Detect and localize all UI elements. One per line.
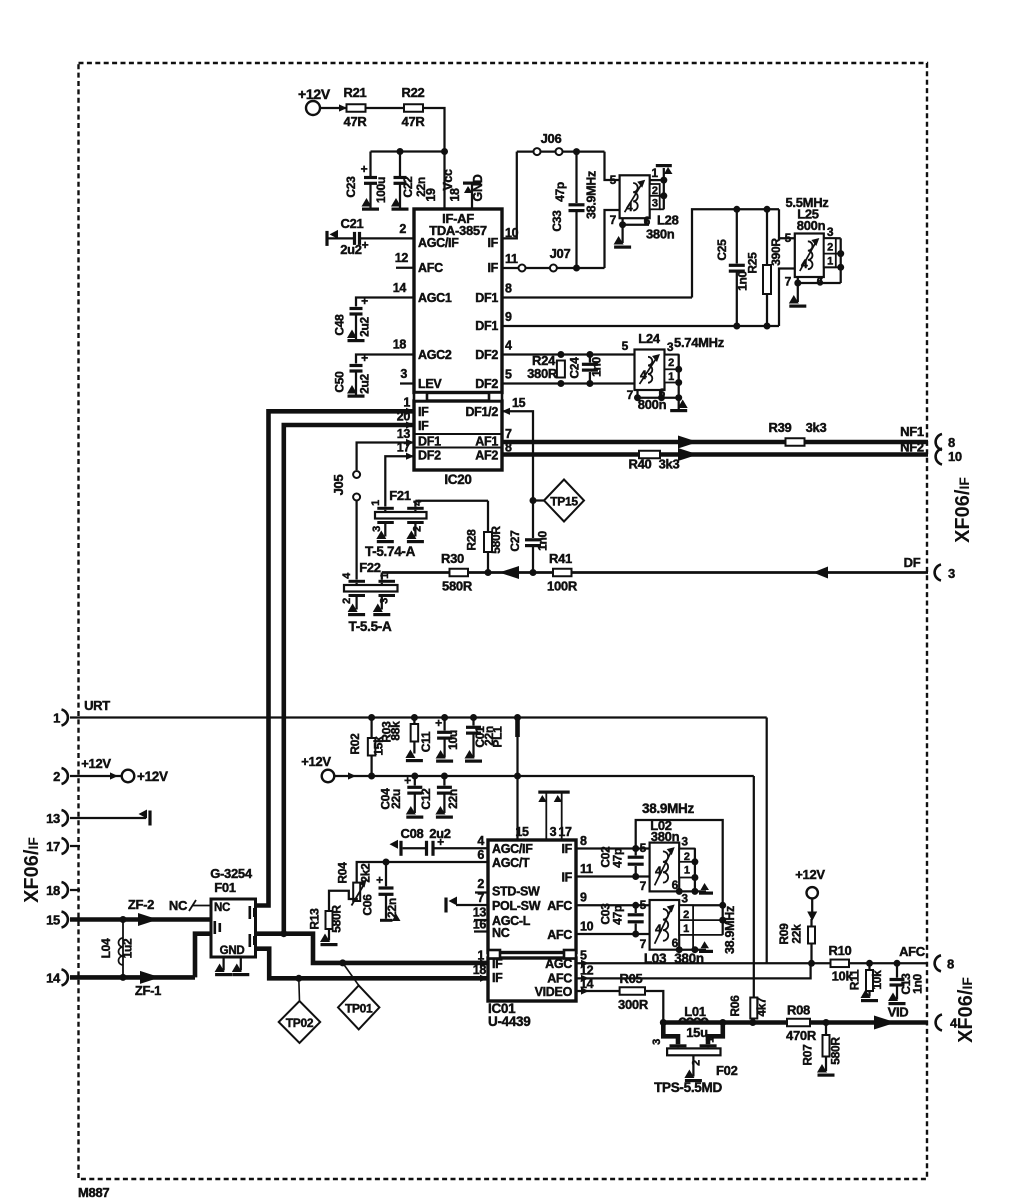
svg-text:DF2: DF2	[475, 348, 498, 362]
svg-text:C08: C08	[401, 826, 424, 841]
svg-text:580R: 580R	[442, 579, 473, 594]
svg-text:3: 3	[681, 891, 688, 905]
svg-text:T-5.74-A: T-5.74-A	[365, 544, 416, 559]
capacitor C08 2u2	[390, 826, 489, 856]
svg-text:DF1: DF1	[475, 291, 498, 305]
svg-text:C06: C06	[361, 894, 375, 916]
wire AFC pin10 row	[576, 931, 650, 938]
resistor R11 10k	[848, 963, 885, 1002]
label IC01 / U-4439	[488, 1001, 530, 1029]
svg-text:5: 5	[610, 173, 617, 187]
wire DF2 pin4 row	[502, 353, 635, 355]
wire +12V rail	[352, 775, 754, 777]
label G-3254 / F01	[210, 866, 253, 895]
label XF06/IF (left)	[21, 837, 43, 903]
svg-text:4: 4	[801, 257, 808, 271]
junction	[586, 351, 593, 387]
svg-text:IF: IF	[492, 971, 503, 985]
svg-text:4: 4	[477, 834, 484, 848]
wire VIDEO out	[576, 990, 620, 992]
connector XF06 pin 3 (DF)	[935, 565, 955, 582]
svg-text:C48: C48	[333, 314, 347, 336]
pin 10 label	[505, 226, 519, 240]
svg-text:AF2: AF2	[475, 449, 498, 463]
ground (pin 17 top)	[554, 791, 570, 841]
label VID	[888, 1005, 909, 1020]
svg-text:F01: F01	[214, 880, 236, 895]
ceramic filter F21 T-5.74-A	[365, 488, 427, 559]
svg-text:DF2: DF2	[475, 377, 498, 391]
+12V feed (left)	[70, 756, 168, 784]
svg-text:1n0: 1n0	[536, 530, 550, 550]
label 38.9MHz (L02)	[642, 801, 694, 816]
capacitor C33 47p	[550, 152, 585, 268]
svg-text:GND: GND	[471, 174, 485, 201]
wire R04 to R13	[329, 891, 357, 911]
wire DF line	[382, 571, 928, 574]
wire to L28 pin5	[605, 152, 620, 180]
svg-text:3: 3	[371, 526, 383, 532]
svg-text:2: 2	[652, 185, 658, 197]
svg-text:1: 1	[668, 371, 674, 383]
svg-text:F02: F02	[716, 1063, 738, 1078]
svg-text:7: 7	[627, 388, 634, 402]
wire AFC pin12 row	[576, 963, 811, 978]
wire F01 out2 to IC20 pin20	[256, 425, 415, 934]
resistor R09 22k	[777, 919, 815, 963]
pin 11 label	[505, 252, 518, 266]
pin 4 label	[477, 834, 484, 848]
junction	[557, 351, 564, 387]
label AFC	[899, 944, 926, 959]
pin 15 label	[512, 396, 526, 410]
svg-text:13: 13	[397, 427, 411, 441]
svg-text:15: 15	[46, 913, 60, 928]
svg-text:ZF-2: ZF-2	[128, 897, 154, 912]
svg-text:R21: R21	[344, 85, 367, 100]
connector XF06 pin 4 (VID)	[936, 1015, 958, 1031]
svg-text:2u2: 2u2	[358, 373, 372, 393]
resistor R39 3k3	[769, 420, 827, 446]
svg-text:3k3: 3k3	[806, 420, 827, 435]
svg-text:PL1: PL1	[491, 726, 505, 748]
svg-text:TP02: TP02	[286, 1016, 314, 1030]
svg-text:47p: 47p	[553, 182, 567, 202]
svg-text:1n0: 1n0	[590, 356, 604, 376]
wire IF pin11 row	[576, 873, 650, 880]
svg-text:2: 2	[827, 242, 833, 254]
pin 5 label	[505, 368, 512, 382]
svg-text:+12V: +12V	[81, 756, 111, 771]
resistor R05 300R	[618, 971, 649, 1012]
svg-text:R39: R39	[769, 420, 792, 435]
wire IF pin8 row	[576, 845, 650, 852]
svg-text:19: 19	[424, 188, 438, 202]
wire VID line	[723, 1020, 928, 1025]
wire rail to R06	[753, 776, 755, 998]
pin 7 label	[505, 427, 512, 441]
svg-text:XF06/IF: XF06/IF	[952, 477, 974, 543]
svg-text:47R: 47R	[344, 114, 368, 129]
svg-text:1: 1	[651, 166, 658, 180]
svg-text:3k3: 3k3	[659, 457, 680, 472]
svg-text:R04: R04	[336, 862, 350, 884]
svg-text:10: 10	[580, 920, 594, 934]
svg-text:L28: L28	[657, 213, 679, 228]
svg-text:IF: IF	[561, 871, 572, 885]
svg-text:DF1: DF1	[475, 319, 498, 333]
pin 17 label (top)	[558, 825, 572, 839]
wire URT line	[70, 716, 767, 718]
IC01 lower body	[488, 950, 576, 1001]
svg-text:8: 8	[505, 282, 512, 296]
svg-text:18: 18	[448, 188, 462, 202]
wire R05 to VID line	[645, 991, 663, 1023]
jumper J07	[519, 246, 571, 272]
svg-text:F22: F22	[359, 560, 381, 575]
svg-text:C24: C24	[568, 357, 582, 379]
svg-text:1: 1	[827, 256, 833, 268]
pin 16 stub	[473, 918, 488, 932]
bandpass filter L28 380n	[610, 173, 679, 242]
svg-text:POL-SW: POL-SW	[492, 899, 541, 913]
connector XF06 pin 13	[46, 810, 68, 826]
label XF06/IF (right upper)	[952, 477, 974, 543]
svg-text:ZF-1: ZF-1	[135, 983, 161, 998]
pin 11 label	[580, 862, 593, 876]
SAW filter F01 G-3254	[211, 899, 256, 957]
svg-text:6: 6	[477, 848, 484, 862]
arrow (NF1)	[678, 436, 698, 449]
wire ZF-1 to F01	[195, 934, 211, 978]
svg-text:47p: 47p	[611, 905, 625, 925]
svg-text:L01: L01	[684, 1004, 706, 1019]
capacitor C25 1n0	[715, 209, 750, 326]
svg-text:DF1: DF1	[418, 435, 441, 449]
svg-text:2: 2	[477, 877, 484, 891]
svg-text:8: 8	[580, 834, 587, 848]
pin 14 label	[580, 977, 594, 991]
svg-text:22n: 22n	[385, 898, 399, 918]
svg-text:2k2: 2k2	[359, 863, 373, 883]
arrow (NF2)	[678, 448, 698, 461]
svg-text:AGC/IF: AGC/IF	[492, 842, 533, 856]
svg-text:NC: NC	[214, 902, 230, 914]
ground (pin 3 top)	[538, 791, 554, 841]
L25 bottom rail and ground	[789, 277, 841, 308]
svg-text:+12V: +12V	[298, 86, 331, 102]
svg-text:DF2: DF2	[418, 449, 441, 463]
svg-text:38.9MHz: 38.9MHz	[642, 801, 694, 816]
IC U-IC01 U-4439 main body	[488, 840, 576, 953]
svg-text:R22: R22	[402, 85, 425, 100]
svg-text:IF: IF	[487, 261, 498, 275]
pin 13 stub	[473, 906, 488, 921]
connector XF06 pin 8 (AFC)	[935, 955, 954, 971]
pin 13 label	[397, 427, 411, 441]
svg-text:2u2: 2u2	[358, 316, 372, 336]
junction	[808, 960, 815, 967]
pin 4 label	[505, 339, 512, 353]
pin 7 label	[477, 891, 484, 905]
junction	[295, 975, 302, 982]
pin 14 label	[393, 281, 407, 295]
pin 3 label (top)	[550, 825, 557, 839]
svg-text:LEV: LEV	[418, 377, 442, 391]
pin 1 label	[403, 396, 410, 410]
L03 output taps	[679, 891, 726, 935]
L02 bottom rail and ground	[676, 883, 713, 895]
test point TP01	[338, 963, 379, 1030]
resistor R07 580R	[801, 1023, 843, 1077]
svg-text:C23: C23	[344, 176, 358, 198]
svg-text:IC20: IC20	[444, 472, 471, 487]
jumper J05	[331, 471, 360, 501]
svg-text:2: 2	[399, 222, 406, 236]
IC20 lower body (IF/DF switch)	[414, 393, 502, 471]
svg-text:3: 3	[681, 835, 688, 849]
svg-text:3: 3	[652, 198, 658, 210]
+12V supply terminal (top)	[298, 86, 347, 115]
pin 8 label	[505, 282, 512, 296]
svg-text:1: 1	[684, 865, 690, 877]
capacitor C23 100u	[344, 152, 388, 211]
arrow (ZF-2)	[138, 913, 158, 926]
label NF1	[900, 424, 924, 439]
svg-text:L24: L24	[638, 331, 661, 346]
svg-text:4: 4	[626, 200, 633, 214]
pin 9 label	[580, 891, 587, 905]
pin 3 stub	[400, 367, 414, 384]
junction	[339, 959, 346, 966]
resistor R21 47R	[344, 85, 368, 129]
svg-text:J05: J05	[331, 475, 346, 496]
svg-text:AFC: AFC	[547, 928, 572, 942]
bandpass filter L24 800n	[622, 331, 725, 402]
svg-text:IF: IF	[487, 236, 498, 250]
capacitor C13 1n0	[888, 963, 925, 1005]
connector XF06 pin 15 (ZF-2)	[46, 912, 68, 928]
svg-text:380n: 380n	[646, 227, 675, 242]
pin 2 label	[399, 222, 406, 236]
svg-text:22k: 22k	[790, 924, 804, 944]
pin 6 label	[477, 848, 484, 862]
svg-text:1u2: 1u2	[121, 938, 135, 958]
wire DF1 pin9 rail	[502, 325, 779, 327]
svg-text:C12: C12	[419, 788, 433, 810]
svg-text:+: +	[361, 162, 368, 176]
pin 8 label (AF2)	[505, 441, 512, 455]
label 38.9MHz (L03)	[723, 906, 737, 954]
svg-text:800n: 800n	[638, 397, 667, 412]
svg-text:7: 7	[505, 427, 512, 441]
svg-text:38.9MHz: 38.9MHz	[723, 906, 737, 954]
pin 19 Vcc label	[424, 169, 455, 202]
svg-text:5.74MHz: 5.74MHz	[674, 335, 725, 350]
svg-text:8: 8	[948, 435, 955, 450]
svg-text:R30: R30	[441, 551, 464, 566]
junction	[733, 206, 740, 213]
wire F21 pin4 to R28	[415, 500, 488, 502]
jumper J06	[534, 131, 563, 155]
svg-text:VIDEO: VIDEO	[535, 985, 573, 999]
svg-text:R40: R40	[629, 457, 652, 472]
svg-text:1n0: 1n0	[911, 973, 925, 993]
svg-text:3: 3	[651, 1039, 663, 1045]
bandpass filter L02 380n	[640, 818, 680, 893]
svg-text:12: 12	[395, 251, 409, 265]
svg-text:800n: 800n	[797, 218, 826, 233]
+12V supply terminal (right)	[795, 867, 825, 921]
wire	[341, 107, 347, 109]
svg-text:4: 4	[640, 368, 647, 382]
svg-text:+: +	[437, 835, 444, 849]
bandpass filter L25 800n	[785, 195, 830, 289]
svg-text:R02: R02	[348, 733, 362, 755]
svg-text:47p: 47p	[611, 848, 625, 868]
svg-text:URT: URT	[84, 698, 110, 713]
svg-text:TPS-5.5MD: TPS-5.5MD	[654, 1080, 722, 1095]
svg-text:AFC: AFC	[547, 899, 572, 913]
label NF2	[900, 440, 924, 455]
svg-text:4: 4	[505, 339, 512, 353]
svg-text:18: 18	[473, 963, 487, 977]
junction	[397, 148, 404, 155]
svg-text:TP01: TP01	[345, 1001, 373, 1015]
svg-text:J06: J06	[541, 131, 562, 146]
pin 12 label	[580, 964, 594, 978]
svg-text:J07: J07	[550, 246, 571, 261]
svg-text:580R: 580R	[330, 905, 344, 933]
input arrows IC01	[480, 959, 488, 982]
wire URT to AGC node	[766, 718, 768, 964]
L24 output taps	[665, 340, 683, 398]
capacitor C22 22n	[391, 152, 428, 211]
wire pin10 to J06	[502, 152, 517, 239]
junction	[280, 930, 287, 937]
svg-text:4: 4	[655, 922, 662, 936]
capacitor C48 2u2	[333, 294, 415, 342]
svg-text:C11: C11	[419, 731, 433, 752]
junction	[530, 497, 537, 504]
junction	[530, 569, 537, 576]
wire NF2	[502, 452, 928, 457]
svg-text:5: 5	[505, 368, 512, 382]
svg-text:AGC2: AGC2	[418, 348, 452, 362]
svg-text:10u: 10u	[446, 730, 460, 750]
svg-text:AFC: AFC	[547, 972, 572, 986]
svg-text:3: 3	[827, 225, 834, 239]
svg-text:7: 7	[785, 275, 792, 289]
connector XF06 pin 18	[46, 882, 80, 898]
svg-text:AGC/T: AGC/T	[492, 856, 530, 870]
+12V supply terminal (mid)	[301, 754, 356, 782]
junction	[764, 323, 771, 330]
svg-text:IF: IF	[561, 842, 572, 856]
svg-text:R41: R41	[549, 551, 572, 566]
resistor R10 10k	[829, 943, 854, 984]
svg-text:7: 7	[640, 879, 647, 893]
junction	[485, 569, 492, 576]
svg-text:11: 11	[505, 252, 518, 266]
L28 output taps	[650, 166, 668, 210]
capacitor C50 2u2	[333, 351, 415, 398]
svg-text:2: 2	[341, 598, 353, 604]
svg-text:GND: GND	[220, 945, 245, 957]
svg-text:7: 7	[640, 937, 647, 951]
resistor R25 390R	[746, 209, 784, 326]
NC stub (F01)	[169, 898, 211, 913]
resistor R13 580R	[308, 905, 344, 947]
wire ZF-2	[70, 897, 211, 920]
wire	[366, 107, 405, 109]
L28 bottom rail and ground	[614, 218, 649, 249]
wire AFC out	[849, 962, 928, 964]
resistor R24 380R	[527, 353, 565, 381]
pin 8 label	[580, 834, 587, 848]
ceramic filter F22 T-5.5-A	[341, 560, 398, 634]
svg-text:17: 17	[46, 839, 60, 854]
wire to IC01 pin1	[284, 934, 488, 963]
svg-text:DF1/2: DF1/2	[465, 405, 498, 419]
wire to L25 pin4	[779, 269, 795, 327]
svg-text:2: 2	[412, 526, 424, 532]
pin 9 label	[505, 310, 512, 324]
wire F01 out lower to IC01 pin18	[256, 949, 489, 979]
svg-text:R06: R06	[728, 995, 742, 1017]
wire decoupling rail	[371, 150, 445, 152]
junction	[660, 1019, 667, 1026]
label URT	[84, 698, 110, 713]
svg-text:R13: R13	[308, 908, 322, 930]
wire pin17 to F21	[385, 456, 414, 506]
svg-text:G-3254: G-3254	[210, 866, 253, 881]
svg-text:7: 7	[477, 891, 484, 905]
svg-text:C33: C33	[550, 210, 564, 232]
svg-text:1: 1	[403, 396, 410, 410]
svg-text:R10: R10	[829, 943, 852, 958]
svg-text:14: 14	[393, 281, 407, 295]
svg-text:1: 1	[705, 1037, 717, 1043]
junction	[368, 773, 521, 780]
svg-text:18: 18	[393, 338, 407, 352]
resistor R41 100R	[547, 551, 578, 594]
svg-text:IF: IF	[492, 957, 503, 971]
capacitor C03 47p	[599, 903, 644, 934]
svg-text:+: +	[361, 351, 368, 365]
pin 15 label (top)	[515, 825, 529, 839]
wire J06 row	[517, 150, 605, 152]
svg-text:C50: C50	[333, 371, 347, 393]
L03 bottom rail and ground	[653, 935, 713, 953]
svg-text:4k7: 4k7	[755, 997, 769, 1017]
svg-text:AGC: AGC	[545, 957, 572, 971]
connector XF06 pin 14 (ZF-1)	[46, 969, 68, 985]
svg-text:13: 13	[46, 811, 60, 826]
svg-text:2: 2	[691, 1060, 703, 1066]
svg-text:3: 3	[379, 598, 391, 604]
svg-text:1: 1	[370, 500, 382, 506]
svg-text:14: 14	[46, 970, 61, 985]
wire F01 out1 to IC20 pin1	[256, 411, 415, 905]
wire L02 loop	[636, 820, 723, 935]
svg-text:AFC: AFC	[899, 944, 926, 959]
svg-text:+: +	[361, 294, 368, 308]
svg-text:9: 9	[505, 310, 512, 324]
svg-text:38.9MHz: 38.9MHz	[585, 171, 599, 219]
svg-text:2: 2	[683, 909, 689, 921]
wire pin15 route	[502, 411, 533, 538]
